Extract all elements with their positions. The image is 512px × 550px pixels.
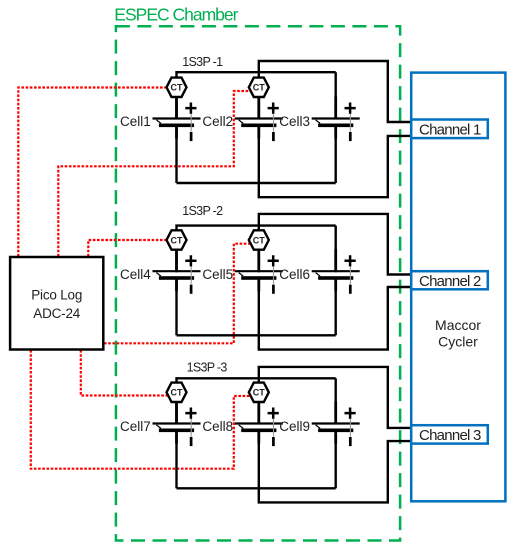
terminal Channel 1 box (411, 120, 488, 139)
battery cell Cell9 (312, 402, 360, 447)
svg-text:CT: CT (171, 235, 183, 245)
svg-text:Cell8: Cell8 (202, 419, 233, 434)
current transducer CT5 (Cell7) (167, 383, 187, 402)
data logger U1 Pico Log ADC-24 box (10, 257, 103, 350)
node: group1 negative bus (177, 182, 336, 184)
label Pico Log ADC-24 (31, 288, 82, 321)
svg-text:Channel 3: Channel 3 (419, 427, 481, 444)
wire: red sense lead Pico ADC ch6 to CT6 (Cell8) (31, 350, 252, 469)
svg-text:Cell7: Cell7 (120, 419, 151, 434)
svg-text:1S3P -1: 1S3P -1 (182, 55, 223, 69)
svg-text:Cell3: Cell3 (279, 114, 310, 129)
svg-text:Cell2: Cell2 (202, 114, 233, 129)
battery cell Cell5 (235, 249, 283, 294)
svg-text:Cell5: Cell5 (202, 267, 233, 282)
battery cell Cell1 (153, 97, 201, 142)
node: group1 positive bus (line A) CT2 top to Channel 1 (259, 61, 412, 122)
wire: red sense lead Pico ADC ch5 to CT5 (Cell7) (81, 350, 169, 396)
wire: Cell7 negative drop (175, 430, 177, 488)
svg-text:ADC-24: ADC-24 (33, 306, 81, 321)
battery cell Cell2 (235, 97, 283, 142)
wire: Cell4 negative drop (175, 278, 177, 336)
svg-text:ESPEC Chamber: ESPEC Chamber (114, 5, 238, 25)
label Cell9 with leader (279, 419, 320, 434)
node: group2 positive bus (line A) CT4 top to Channel 2 (259, 214, 412, 275)
label Cell6 with leader (279, 267, 320, 282)
cycler U2 Maccor Cycler box (411, 73, 505, 502)
svg-text:CT: CT (253, 235, 265, 245)
wire: Cell9 negative drop (335, 430, 337, 488)
current transducer CT2 (Cell2) (249, 78, 269, 97)
label Maccor Cycler (435, 317, 481, 349)
svg-text:CT: CT (253, 388, 265, 398)
label Cell2 with leader (202, 114, 243, 129)
current transducer CT3 (Cell4) (167, 230, 187, 249)
svg-text:Channel 1: Channel 1 (419, 122, 481, 139)
current transducer CT6 (Cell8) (249, 383, 269, 402)
wire: Cell1 negative drop (175, 125, 177, 183)
label Cell1 with leader (120, 114, 161, 129)
svg-text:CT: CT (171, 83, 183, 93)
svg-text:Cell6: Cell6 (279, 267, 310, 282)
current transducer CT1 (Cell1) (167, 78, 187, 97)
svg-text:Cycler: Cycler (438, 333, 478, 349)
wire: Cell2 negative drop to Channel 1 return (259, 125, 412, 197)
svg-text:1S3P -3: 1S3P -3 (187, 360, 228, 374)
node: group2 negative bus (177, 334, 336, 336)
svg-text:Cell9: Cell9 (279, 419, 310, 434)
node: group2 line B CT3 top to Cell6 top (177, 226, 336, 273)
terminal Channel 3 box (411, 425, 488, 444)
wire: red sense lead Pico ADC ch3 to CT3 (Cell4) (88, 240, 168, 257)
battery cell Cell7 (153, 402, 201, 447)
wire: Cell3 positive riser (335, 72, 337, 119)
wire: red sense lead Pico ADC ch4 to CT4 (Cell5) (104, 244, 252, 344)
svg-text:Cell4: Cell4 (120, 267, 151, 282)
current transducer CT4 (Cell5) (249, 230, 269, 249)
node: group1 line B CT1 top to Cell3 top (177, 72, 336, 119)
node: group3 negative bus (177, 487, 336, 489)
svg-text:CT: CT (253, 83, 265, 93)
battery cell Cell6 (312, 249, 360, 294)
wire: Cell8 negative drop to Channel 3 return (259, 430, 412, 502)
battery cell Cell4 (153, 249, 201, 294)
label Cell7 with leader (120, 419, 161, 434)
node: group3 positive bus (line A) CT6 top to Channel 3 (259, 367, 412, 428)
terminal Channel 2 box (411, 271, 488, 290)
svg-text:Channel 2: Channel 2 (419, 273, 481, 290)
wire: red sense lead Pico ADC ch2 to CT2 (Cell2) (58, 91, 251, 257)
wire: red sense lead Pico ADC ch1 to CT1 (Cell1) (18, 88, 171, 257)
wire: Cell9 positive riser (335, 378, 337, 424)
wire: Cell6 positive riser (335, 226, 337, 273)
svg-text:Maccor: Maccor (435, 317, 481, 333)
battery cell Cell8 (235, 402, 283, 447)
wire: Cell3 negative drop (335, 125, 337, 183)
label Cell8 with leader (202, 419, 243, 434)
svg-text:Cell1: Cell1 (120, 114, 151, 129)
battery cell Cell3 (312, 97, 360, 142)
label Cell3 with leader (279, 114, 320, 129)
label Cell4 with leader (120, 267, 161, 282)
wire: Cell6 negative drop (335, 278, 337, 336)
svg-text:1S3P -2: 1S3P -2 (182, 204, 223, 218)
svg-text:Pico Log: Pico Log (31, 288, 82, 303)
ESPEC chamber boundary (green dashed enclosure) (116, 26, 400, 540)
wire: Cell5 negative drop to Channel 2 return (259, 278, 412, 350)
node: group3 line B CT5 top to Cell9 top (177, 378, 336, 424)
svg-text:CT: CT (171, 388, 183, 398)
label Cell5 with leader (202, 267, 243, 282)
